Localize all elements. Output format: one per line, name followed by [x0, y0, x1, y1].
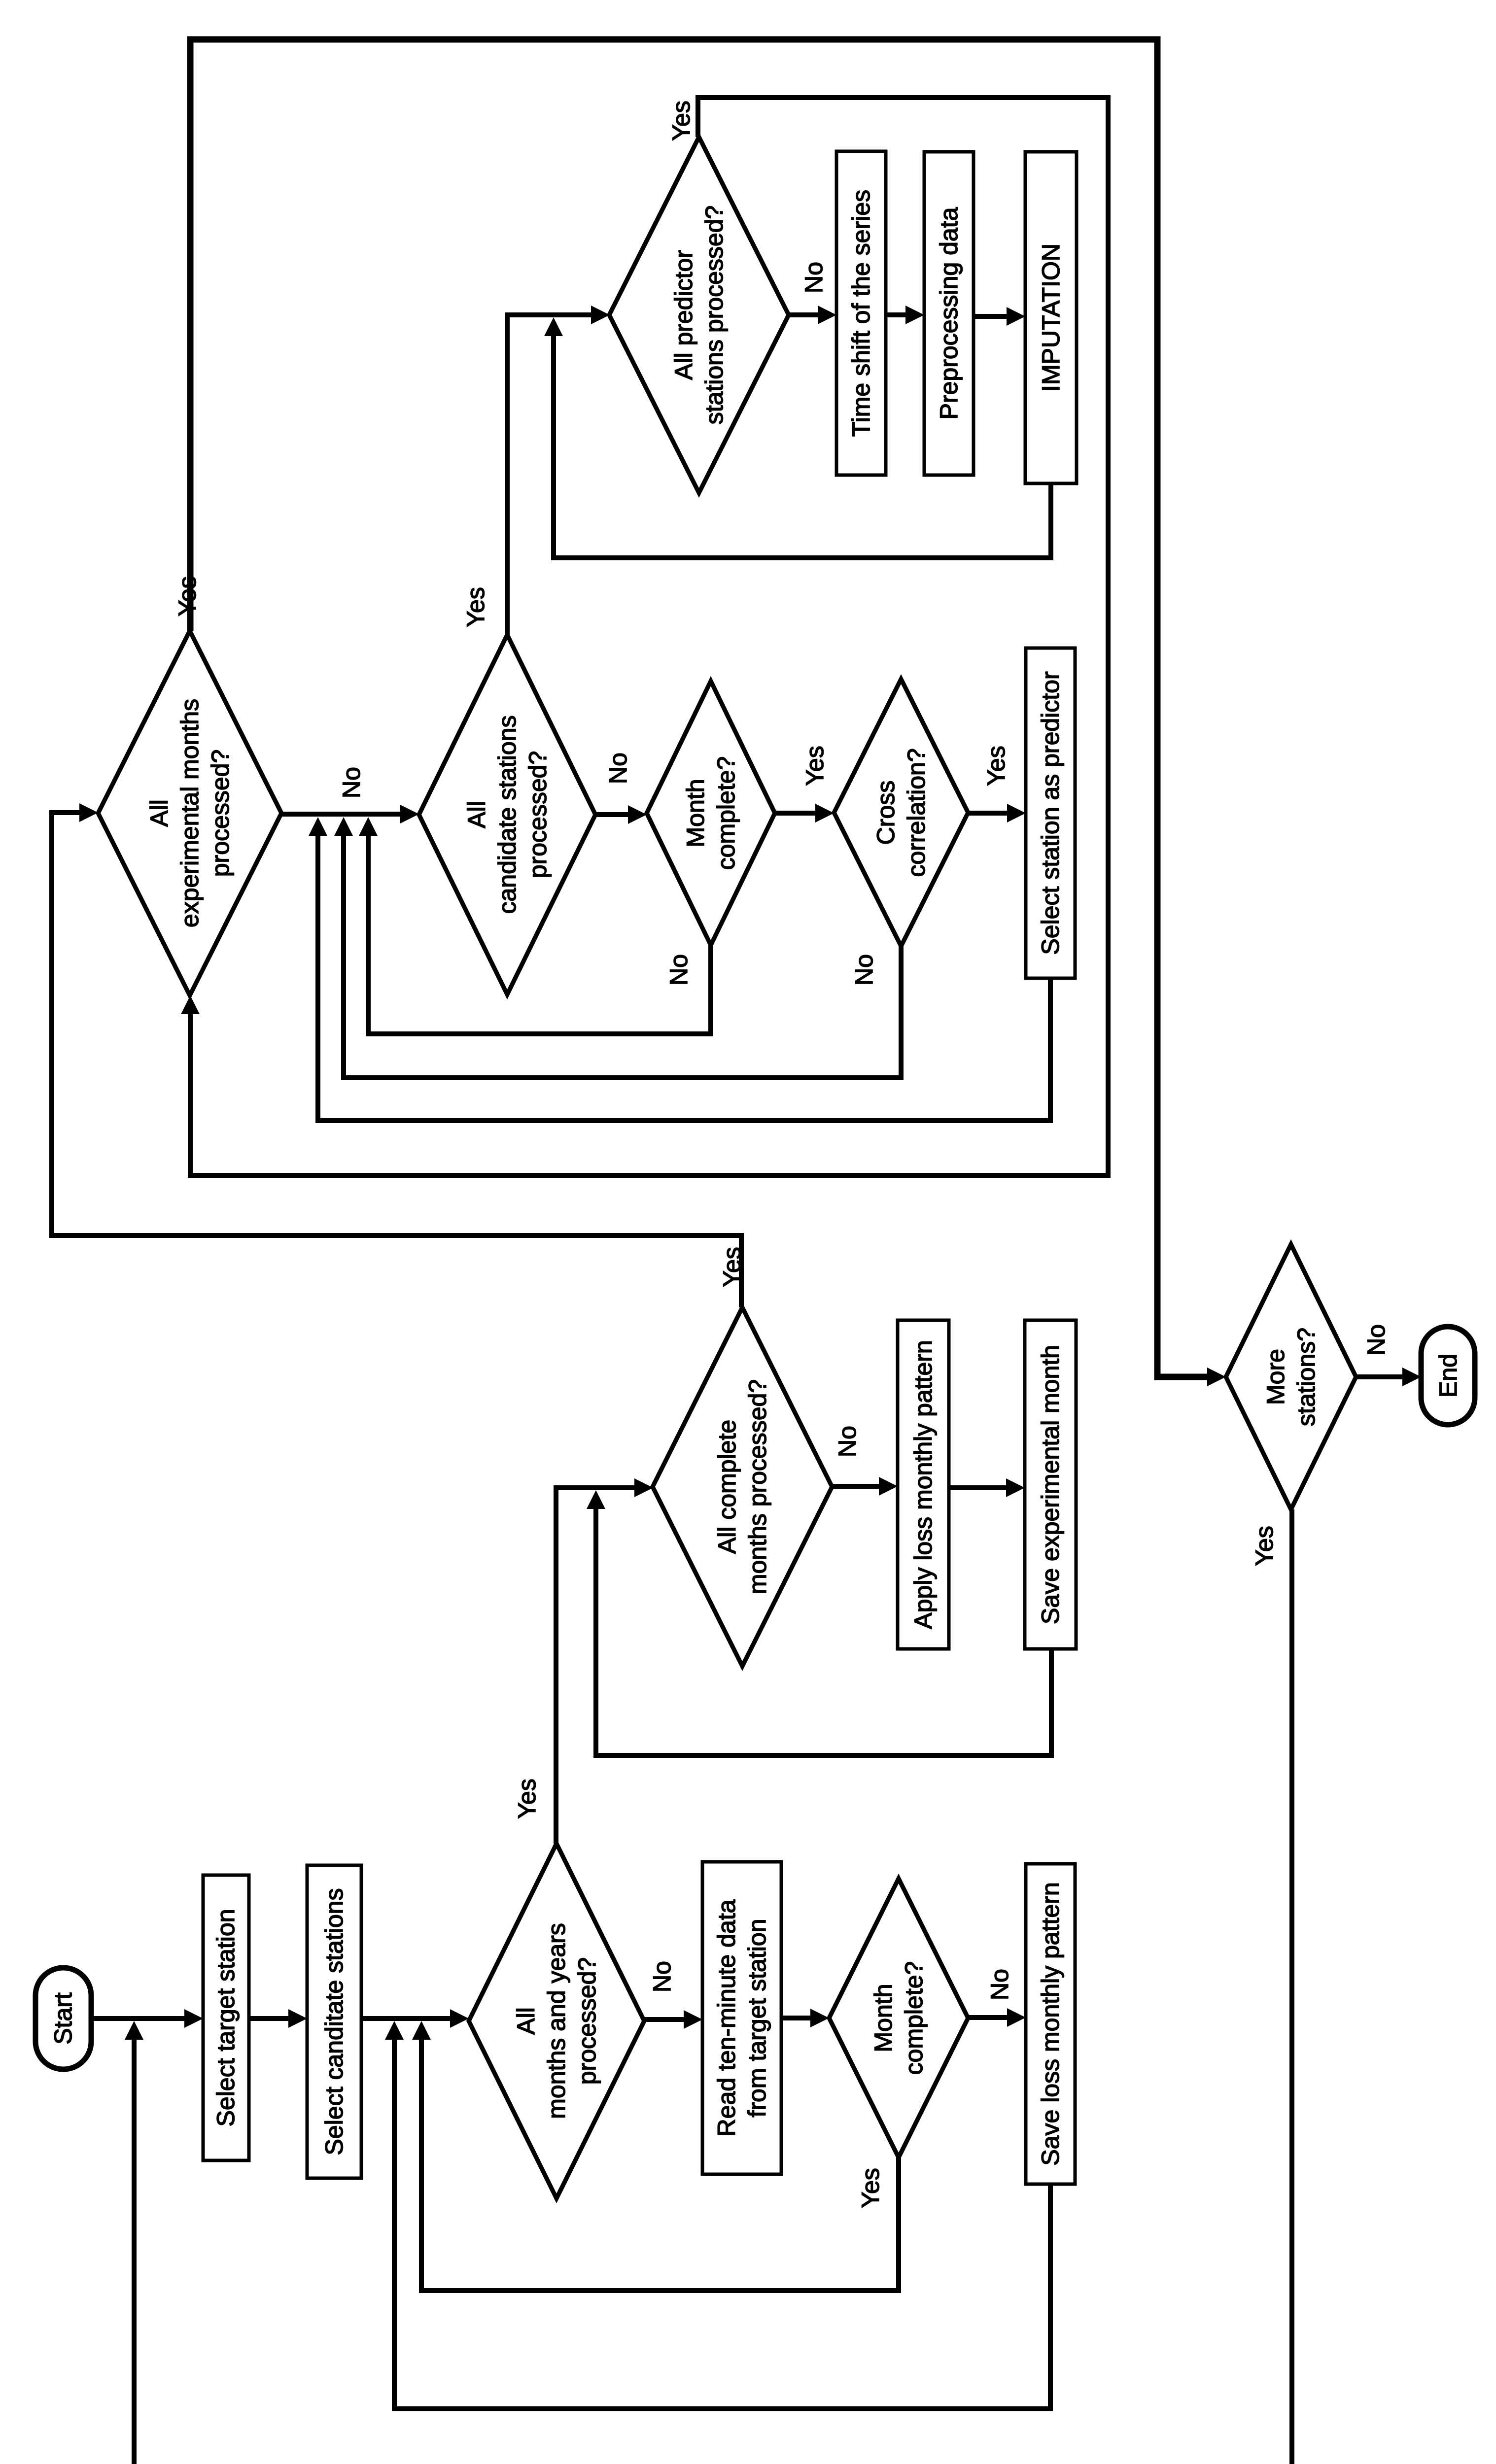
svg-text:from target station: from target station — [743, 1919, 771, 2118]
svg-text:Yes: Yes — [1251, 1526, 1278, 1566]
process box: Read ten-minute data from target station — [702, 1862, 781, 2174]
svg-text:processed?: processed? — [524, 751, 552, 879]
wire Yes return from More stations to Start rail — [134, 1509, 1292, 2464]
svg-text:months processed?: months processed? — [744, 1379, 771, 1594]
svg-text:No: No — [986, 1969, 1013, 2000]
process box: IMPUTATION — [1025, 152, 1077, 483]
svg-text:Select station as predictor: Select station as predictor — [1037, 671, 1064, 955]
svg-text:Save loss monthly pattern: Save loss monthly pattern — [1037, 1882, 1064, 2165]
wire Yes from Cross correlation to Select station as predictor — [968, 811, 1010, 816]
decision: More stations? — [1226, 1244, 1356, 1509]
wire Time shift to Preprocessing data — [886, 312, 908, 317]
process box: Preprocessing data — [924, 152, 974, 475]
wire Yes from candidate stations to All predictor stations — [507, 315, 594, 635]
process box: Time shift of the series — [836, 151, 886, 475]
decision: All complete months processed? — [653, 1307, 832, 1666]
svg-text:processed?: processed? — [207, 750, 234, 877]
svg-text:No: No — [338, 767, 365, 798]
svg-text:Preprocessing data: Preprocessing data — [935, 207, 963, 419]
wire Select target station to Select canditate stations — [249, 2016, 291, 2021]
svg-text:correlation?: correlation? — [903, 748, 930, 877]
wire return from Save loss monthly pattern to main rail — [394, 2037, 1050, 2409]
svg-text:Select canditate stations: Select canditate stations — [320, 1888, 348, 2156]
svg-text:No: No — [834, 1426, 861, 1457]
process box: Save loss monthly pattern — [1026, 1864, 1075, 2184]
decision: Month complete? (candidate station) — [647, 681, 775, 945]
wire No to Apply loss monthly pattern — [832, 1484, 882, 1489]
wire No from candidate stations to Month complete 2 — [595, 812, 631, 817]
wire Apply loss to Save experimental month — [949, 1485, 1009, 1490]
decision: Month complete? (target station) — [829, 1879, 968, 2157]
svg-text:All: All — [463, 801, 490, 828]
start terminal — [35, 1968, 91, 2069]
svg-text:End: End — [1434, 1354, 1462, 1398]
svg-text:IMPUTATION: IMPUTATION — [1037, 243, 1065, 392]
decision: Cross correlation? — [834, 679, 968, 946]
wire Yes from All complete months to All experimental months — [52, 813, 741, 1307]
svg-text:Yes: Yes — [982, 746, 1010, 786]
svg-text:Start: Start — [49, 1992, 77, 2045]
wire No return from Month complete 2 to column 3 rail — [368, 833, 711, 1034]
svg-text:No: No — [800, 262, 828, 293]
svg-text:No: No — [648, 1961, 676, 1992]
svg-text:Yes: Yes — [513, 1779, 541, 1819]
svg-text:Yes: Yes — [667, 101, 695, 141]
process box: Apply loss monthly pattern — [898, 1320, 949, 1649]
wire Yes from experimental months to More stations — [190, 39, 1210, 1377]
wire return from Save experimental month to column 2 rail — [596, 1506, 1051, 1755]
wire Select canditate stations to All months and years processed? — [361, 2016, 453, 2021]
svg-text:All complete: All complete — [713, 1420, 741, 1554]
svg-text:Save experimental month: Save experimental month — [1037, 1345, 1064, 1624]
wire Preprocessing data to IMPUTATION — [974, 314, 1009, 319]
decision: All experimental months processed? — [98, 631, 281, 995]
svg-text:Yes: Yes — [857, 2168, 884, 2208]
wire No to Save loss monthly pattern — [968, 2015, 1010, 2020]
wire No from predictor stations to Time shift — [789, 312, 821, 317]
svg-text:Apply loss monthly pattern: Apply loss monthly pattern — [909, 1340, 937, 1629]
svg-text:All predictor: All predictor — [670, 250, 697, 380]
wire No from More stations to End — [1356, 1374, 1405, 1379]
wire No return from Cross correlation to column 3 rail — [344, 833, 901, 1078]
svg-text:candidate stations: candidate stations — [493, 715, 521, 914]
svg-text:No: No — [665, 954, 693, 986]
wire Yes from Month complete 2 to Cross correlation — [775, 811, 818, 816]
process box: Select station as predictor — [1026, 648, 1075, 978]
wire Yes return from Month complete to main rail — [421, 2037, 899, 2291]
svg-text:No: No — [604, 753, 632, 784]
svg-text:processed?: processed? — [573, 1957, 601, 2085]
svg-text:complete?: complete? — [900, 1961, 928, 2075]
wire Start to Select target station — [91, 2016, 187, 2021]
svg-text:experimental months: experimental months — [176, 699, 204, 927]
decision: All candidate stations processed? — [419, 635, 595, 994]
svg-text:All: All — [512, 2007, 540, 2035]
end terminal — [1421, 1327, 1475, 1425]
svg-text:Yes: Yes — [462, 587, 489, 627]
svg-text:Time shift of the series: Time shift of the series — [847, 190, 875, 437]
wire Yes from All months and years to All complete months — [556, 1488, 637, 1844]
svg-text:No: No — [850, 954, 878, 986]
svg-text:Month: Month — [682, 779, 709, 848]
svg-text:stations?: stations? — [1292, 1328, 1320, 1426]
svg-text:months and years: months and years — [543, 1923, 570, 2119]
svg-text:Select target station: Select target station — [212, 1909, 240, 2127]
svg-text:No: No — [1362, 1324, 1390, 1356]
process box: Select canditate stations — [307, 1865, 361, 2178]
wire Read box to Month complete? — [781, 2016, 813, 2020]
wire return from IMPUTATION to predictor stations input — [554, 333, 1051, 558]
wire return from Select station as predictor to column 3 rail — [318, 833, 1050, 1121]
svg-text:More: More — [1262, 1349, 1289, 1405]
svg-text:stations processed?: stations processed? — [700, 205, 728, 425]
wire No to Read ten-minute data box — [644, 2017, 687, 2022]
process box: Save experimental month — [1025, 1320, 1076, 1649]
svg-text:Month: Month — [870, 1984, 897, 2053]
wire Yes from predictor stations back to experimental months — [190, 98, 1108, 1175]
decision: All months and years processed? — [469, 1844, 644, 2198]
svg-text:All: All — [145, 799, 173, 827]
wire No from experimental months to All candidate stations — [281, 812, 403, 817]
process box: Select target station — [203, 1875, 249, 2160]
svg-text:complete?: complete? — [712, 756, 740, 870]
svg-text:Yes: Yes — [801, 746, 829, 786]
svg-text:Read ten-minute data: Read ten-minute data — [713, 1899, 740, 2136]
decision: All predictor stations processed? — [609, 137, 789, 493]
svg-text:Cross: Cross — [872, 781, 900, 845]
